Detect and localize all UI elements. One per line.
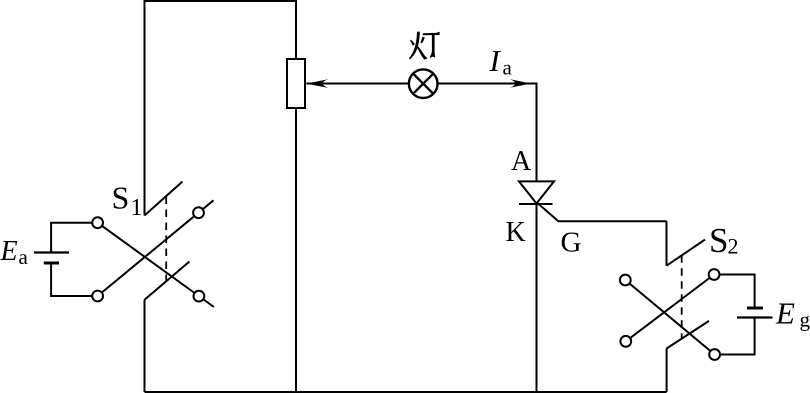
terminal S2 LB [620, 336, 631, 347]
battery Ea positive plate (long) [34, 251, 69, 253]
wire: battery Ea negative to S1 terminal LB [51, 265, 92, 297]
wire: S2 lower pivot to bottom bus [666, 349, 668, 393]
wire: battery Eg bottom to S2 terminal RB [720, 318, 755, 355]
terminal S1 LB [92, 291, 103, 302]
terminal S1 RB [194, 291, 205, 302]
battery Eg positive plate (long) [737, 316, 773, 318]
switch S2 upper blade [667, 240, 706, 266]
svg-text:2: 2 [728, 234, 739, 259]
wire: thyristor cathode to bottom bus [536, 204, 538, 392]
svg-text:A: A [511, 146, 532, 177]
terminal S2 RB [709, 349, 720, 360]
svg-text:1: 1 [131, 195, 143, 221]
terminal S1 LT [92, 217, 103, 228]
arrowhead: Ia current (points right) [510, 79, 531, 88]
potentiometer RP body [287, 59, 305, 108]
svg-text:S: S [112, 180, 130, 216]
svg-text:G: G [561, 226, 582, 258]
switch S1 upper blade [145, 182, 183, 216]
wire: S2 terminal RT to battery Eg top [720, 275, 755, 307]
丁 top horizontal [423, 32, 440, 36]
thyristor V gate lead [539, 204, 667, 221]
thyristor V cathode bar [519, 203, 553, 205]
lamp DS body [409, 69, 438, 98]
svg-text:E: E [775, 295, 795, 330]
svg-text:a: a [503, 56, 513, 80]
wire: S2 cross connection LT to RB [625, 280, 714, 355]
wire: gate lead corner down to S2 upper pivot [666, 221, 668, 265]
wire: S1 cross connection LT to RB (with tail) [98, 223, 214, 307]
svg-text:K: K [506, 217, 526, 248]
switch S1 lower blade [145, 262, 190, 300]
火 left dot [410, 40, 415, 46]
svg-text:E: E [0, 236, 18, 267]
label 灯 (lamp), drawn as strokes [409, 32, 440, 60]
switch S2 mechanical link (dashed) [681, 255, 683, 338]
火 main left-falling stroke [409, 32, 420, 60]
svg-text:S: S [709, 221, 728, 260]
arrowhead: potentiometer wiper (points left) [306, 79, 328, 88]
terminal S2 RT [709, 269, 720, 280]
terminal S1 RT [193, 207, 204, 218]
wire: left loop lower (S1 lower pivot to bottom bus) [144, 300, 146, 392]
wire: lamp to thyristor anode corner [438, 84, 537, 182]
svg-text:g: g [800, 308, 810, 332]
wire: S2 cross connection RT to LB [626, 275, 714, 342]
lamp DS cross [413, 74, 433, 94]
wire: bottom bus [145, 391, 667, 393]
wire: S1 cross connection RT to LB (with tail) [98, 200, 214, 296]
thyristor V anode triangle [519, 181, 554, 203]
battery Ea negative plate (short) [44, 262, 59, 265]
丁 vertical with hook [430, 34, 436, 58]
wire: left loop top (left vertical + top bus + right vertical to potentiometer) [145, 1, 297, 216]
火 right-falling stroke [416, 45, 428, 59]
svg-text:I: I [489, 43, 502, 78]
switch S1 mechanical link (dashed) [165, 197, 167, 282]
svg-text:a: a [19, 245, 29, 269]
wire: battery Ea positive to S1 terminal LT [51, 223, 92, 252]
wire: potentiometer bottom to bottom bus [295, 108, 297, 392]
火 right short stroke [420, 37, 425, 44]
switch S2 lower blade [667, 321, 709, 349]
terminal S2 LT [620, 275, 631, 286]
battery Eg negative plate (short) [747, 307, 763, 310]
wire: potentiometer wiper to lamp [306, 83, 409, 85]
